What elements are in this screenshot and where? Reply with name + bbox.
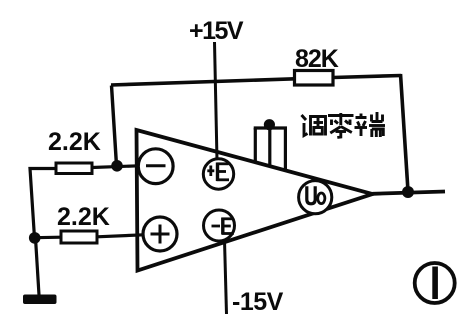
wire: 82K right to corner [333, 76, 401, 78]
node: inverting input junction [111, 160, 123, 172]
op-amp U1 triangle [137, 130, 373, 271]
wire: R3 left lead [35, 236, 61, 240]
resistor R3 2.2K bottom body [61, 231, 97, 243]
minus sign [146, 164, 166, 167]
offset null terminal middle leg [268, 128, 271, 165]
svg-text:2.2K: 2.2K [48, 128, 101, 156]
resistor R1 82K body [295, 71, 334, 86]
node: output junction [402, 186, 414, 198]
offset null terminal left leg [254, 128, 257, 161]
wire: +15V supply drop [215, 42, 218, 160]
figure number bar [432, 267, 438, 300]
wire: output lead [373, 192, 446, 194]
non-inverting input terminal circle [143, 217, 177, 251]
wire: feedback left vertical drop [112, 86, 117, 166]
label +E (drawn) [207, 163, 229, 182]
svg-text:-15V: -15V [232, 288, 284, 316]
svg-text:2.2K: 2.2K [57, 203, 110, 231]
+E supply terminal circle [203, 159, 233, 189]
offset null wiper dot [264, 119, 275, 130]
output terminal circle Uo [299, 181, 332, 214]
node: ground junction [29, 232, 41, 244]
offset null terminal top bar [254, 126, 287, 129]
resistor R2 2.2K top body [56, 163, 92, 174]
wire: R2 left lead and corner down [30, 169, 56, 239]
label 调零端 char 端 [355, 112, 386, 137]
offset null terminal right leg [284, 128, 287, 170]
wire: -15V supply drop [225, 240, 227, 314]
svg-text:+15V: +15V [189, 17, 244, 45]
label 调零端 char 零 [328, 113, 354, 138]
ground symbol [23, 295, 57, 305]
-E supply terminal circle [204, 210, 235, 241]
plus sign [151, 233, 170, 236]
wire: down to ground [36, 238, 40, 295]
wire: feedback top horizontal left of 82K [111, 79, 295, 85]
wire: R2 right lead to inverting input [92, 166, 139, 168]
inverting input terminal circle [138, 149, 173, 184]
svg-text:82K: 82K [295, 45, 339, 73]
wire: feedback right vertical drop to output [401, 74, 409, 191]
label -E (drawn) [212, 218, 234, 235]
figure number circle 1 [415, 263, 455, 303]
label Uo (drawn) [307, 186, 325, 204]
wire: R3 right lead to non-inverting input [97, 235, 144, 237]
label 调零端 (drawn strokes) char 调 [302, 115, 326, 136]
